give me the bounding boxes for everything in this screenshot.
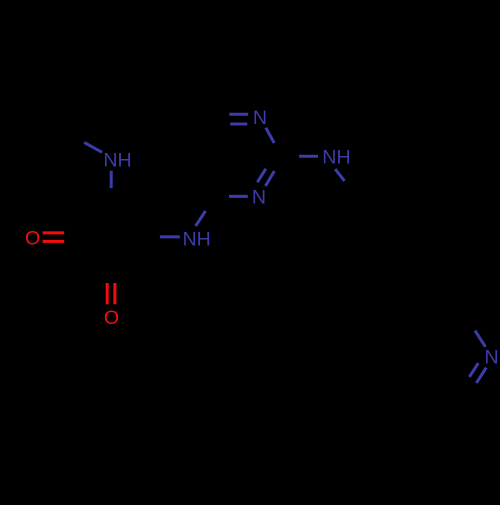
bond C3''-N (pyridine, N half): [475, 331, 485, 347]
bond N1-C2 (N half): [266, 128, 274, 143]
bond O=C1 squarate (O half, double): [106, 283, 109, 304]
bond N-CH2 (N half): [335, 169, 344, 181]
bond C6=N1 (double, N half): [229, 113, 248, 116]
bond C2-N (anilino NH, N half): [299, 155, 318, 158]
bond N3=C2 (double, N half: inner + main): [257, 169, 265, 182]
bond O=C2 squarate (O half, double): [43, 231, 65, 234]
bond N-C4 squarate (N half): [160, 235, 180, 238]
svg-text:NH: NH: [103, 149, 131, 171]
bond N-C4' pyrimidine (N half): [196, 211, 206, 226]
svg-text:N: N: [485, 347, 499, 369]
bond N3-C4' (N half): [229, 195, 248, 198]
bond N-C3 squarate (N half): [110, 171, 113, 188]
bond CH3-N (methylamino, N half): [84, 142, 102, 152]
svg-text:O: O: [104, 307, 119, 329]
svg-text:O: O: [25, 228, 40, 250]
svg-text:N: N: [252, 186, 266, 208]
svg-text:NH: NH: [183, 229, 211, 251]
svg-text:N: N: [253, 107, 267, 129]
svg-text:NH: NH: [322, 147, 350, 169]
bond N=C5'' (pyridine double, N half: main + inner): [476, 368, 486, 383]
